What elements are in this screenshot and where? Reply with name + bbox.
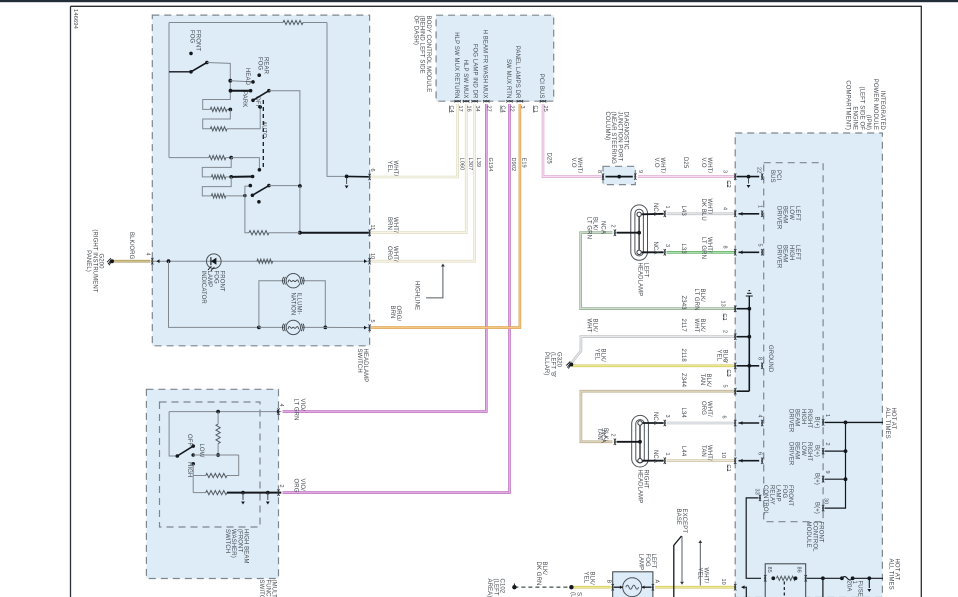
svg-text:30: 30 — [823, 498, 829, 504]
svg-text:LEFT: LEFT — [643, 263, 649, 278]
svg-text:RIGHT: RIGHT — [643, 470, 649, 489]
pin 4 headlamp switch — [151, 258, 153, 264]
svg-text:YEL: YEL — [696, 568, 702, 580]
except base arrow to wire — [681, 536, 683, 582]
svg-text:WHT/: WHT/ — [659, 158, 665, 174]
svg-text:AUTO: AUTO — [261, 121, 267, 138]
svg-text:22: 22 — [509, 106, 515, 112]
BCM pins 22 3 — [506, 100, 512, 102]
relay coil — [764, 575, 766, 581]
wire fog lamp pin A to IPM fog pin 10 — [655, 586, 735, 589]
svg-text:LT GRN: LT GRN — [693, 289, 699, 311]
front fog contact dot — [189, 52, 193, 56]
wire right vertical to pin 6 — [327, 23, 346, 177]
svg-text:(NEAR STEERING: (NEAR STEERING — [610, 112, 616, 165]
svg-text:B(+): B(+) — [814, 502, 820, 514]
arrow branch down at pin6 node — [346, 178, 348, 184]
node junction pin6 branch — [345, 175, 349, 179]
svg-text:22: 22 — [756, 167, 762, 173]
fog lamp relay box — [765, 564, 806, 597]
svg-text:ALL TIMES: ALL TIMES — [884, 408, 890, 439]
svg-text:9: 9 — [637, 170, 643, 173]
svg-text:RIGHT: RIGHT — [806, 409, 812, 428]
svg-text:LOW: LOW — [788, 206, 794, 220]
svg-text:H BEAM FR WASH MUX: H BEAM FR WASH MUX — [482, 30, 488, 99]
IPM pin 5 — [734, 388, 736, 394]
svg-text:HIGH: HIGH — [186, 462, 192, 477]
MFS switch blade — [176, 454, 180, 458]
svg-text:MODULE: MODULE — [805, 522, 811, 548]
svg-text:LEFT: LEFT — [794, 206, 800, 221]
wire WHT/LT GRN L33 left headlamp pin 3 to IPM pin 8 — [667, 251, 735, 254]
svg-text:WHT/: WHT/ — [703, 568, 709, 584]
svg-text:SW MUX RTN: SW MUX RTN — [505, 59, 511, 99]
arrow into MFS pin 4 — [277, 410, 280, 414]
wire WHT/ORG L39 BCM pin 34 to headlamp switch pin 10 — [371, 104, 475, 261]
svg-text:ENGINE: ENGINE — [851, 106, 857, 130]
wire BLK/YEL 2118 ground G320 to IPM pin 3 — [572, 364, 735, 367]
wire WHT/V.O D25 PCI bus port pin 9 to IPM pin 3 — [638, 175, 735, 178]
left headlamp pin circles — [637, 212, 641, 216]
svg-text:2118: 2118 — [680, 349, 686, 363]
FCM B+ pin 30 — [822, 505, 824, 511]
wire BLK/DK GRN dashed to connector C102 — [514, 586, 571, 588]
svg-text:LAMP: LAMP — [206, 271, 212, 288]
svg-text:INDICATOR: INDICATOR — [200, 271, 206, 305]
wire WHT/TAN L44 right headlamp pin 1 to IPM pin 10 — [667, 459, 735, 462]
IPM ground bus — [737, 308, 750, 310]
svg-text:4: 4 — [757, 415, 763, 418]
fog lamp bulb — [623, 578, 642, 597]
svg-text:TAN: TAN — [700, 445, 706, 457]
wire pin4 row with LED — [153, 260, 369, 262]
splice dot right — [569, 585, 573, 589]
svg-text:WHT/: WHT/ — [392, 246, 398, 262]
svg-text:1: 1 — [664, 206, 670, 209]
wire BLK/YEL splice to left fog lamp pin B — [571, 586, 610, 589]
svg-text:BLK/: BLK/ — [705, 374, 711, 388]
svg-text:WHT/: WHT/ — [576, 158, 582, 174]
svg-text:SWITCH: SWITCH — [224, 529, 230, 553]
svg-text:BLK/: BLK/ — [589, 572, 595, 586]
svg-text:L060: L060 — [458, 158, 464, 171]
fuse 1 — [842, 577, 853, 580]
svg-text:ILLUMI-: ILLUMI- — [296, 293, 302, 315]
svg-text:L34: L34 — [680, 408, 686, 419]
FCM pin 4 — [761, 420, 763, 426]
off contact lower — [257, 200, 261, 204]
wire park blade to right bus — [269, 91, 300, 186]
svg-text:COLUMN): COLUMN) — [604, 112, 610, 141]
svg-text:VIO/: VIO/ — [299, 399, 305, 412]
svg-text:2: 2 — [610, 434, 616, 437]
svg-text:DIAGNOSTIC: DIAGNOSTIC — [623, 112, 629, 151]
right headlamp pin 2 — [614, 439, 616, 445]
svg-text:BLK/: BLK/ — [600, 349, 606, 363]
right headlamp stadium — [632, 415, 649, 467]
svg-text:2: 2 — [722, 330, 728, 333]
resistor park ladder 1 — [210, 107, 227, 111]
wire to pin 5 — [325, 326, 368, 328]
svg-text:DRIVER: DRIVER — [775, 206, 781, 230]
IPM pin 6 — [734, 420, 736, 426]
svg-text:8: 8 — [757, 357, 763, 360]
wire BLK/WHT 2117 ground G320 to IPM pin 2 — [571, 337, 734, 363]
IPM pin 2 — [734, 334, 736, 340]
resistor dimmer 2 — [211, 175, 225, 179]
svg-text:A: A — [654, 580, 660, 584]
svg-text:LT GRN: LT GRN — [293, 399, 299, 421]
wire BLK/TAN Z344 right headlamp pin 2 to IPM pin 5 — [581, 391, 735, 442]
svg-text:BODY CONTROL MODULE: BODY CONTROL MODULE — [425, 16, 431, 93]
svg-text:1: 1 — [664, 453, 670, 456]
right headlamp pin circles — [638, 421, 642, 425]
svg-text:HIGH: HIGH — [788, 245, 794, 260]
svg-text:BLK/ORG: BLK/ORG — [128, 232, 134, 260]
svg-text:D25: D25 — [545, 153, 551, 165]
head contact — [228, 79, 232, 83]
svg-text:B(+): B(+) — [814, 417, 820, 429]
svg-text:10: 10 — [720, 452, 726, 458]
svg-text:DRIVER: DRIVER — [775, 245, 781, 269]
contact wire dimmer2 thick — [231, 176, 252, 178]
svg-text:LEFT: LEFT — [794, 245, 800, 260]
svg-text:LEFT: LEFT — [650, 554, 656, 569]
svg-text:DRIVER: DRIVER — [787, 442, 793, 466]
svg-text:BEAM: BEAM — [794, 442, 800, 459]
IPM wire pin10 to FCM pin 6 — [739, 460, 760, 462]
svg-text:DK GRN: DK GRN — [535, 562, 541, 586]
IPM PCI wire to FCM pin 22 — [737, 176, 760, 178]
svg-text:WHT/: WHT/ — [706, 237, 712, 253]
svg-text:NCA: NCA — [652, 412, 658, 425]
svg-text:LT GRN: LT GRN — [585, 217, 591, 239]
svg-text:(FRONT: (FRONT — [236, 529, 242, 552]
svg-text:4: 4 — [145, 253, 151, 256]
wire loop dimmer 2 — [202, 158, 231, 177]
top dark bar — [0, 0, 958, 2]
headlamp switch module box — [152, 15, 369, 346]
svg-text:6: 6 — [369, 169, 375, 172]
except base leader wire — [674, 536, 682, 597]
svg-text:ORG: ORG — [700, 401, 706, 415]
svg-text:RELAY: RELAY — [768, 485, 774, 505]
fog lamp pin A — [652, 584, 654, 590]
right headlamp internal wires — [643, 422, 664, 424]
svg-text:LOW: LOW — [800, 442, 806, 456]
wire left feed vertical — [168, 23, 170, 72]
MFS high contact — [191, 462, 195, 466]
wht/yel branch vertical with arrow — [699, 543, 701, 586]
svg-text:2117: 2117 — [680, 319, 686, 333]
wire relay to fuse — [807, 577, 842, 579]
FCM B+ pin 1 — [822, 419, 824, 425]
svg-text:33: 33 — [754, 489, 760, 495]
svg-text:LAMP: LAMP — [775, 485, 781, 502]
svg-text:NATION: NATION — [289, 293, 295, 316]
wire to off contact — [227, 107, 260, 129]
svg-text:6: 6 — [757, 452, 763, 455]
svg-text:V.O: V.O — [570, 158, 576, 168]
FCM pin 6 — [761, 458, 763, 464]
svg-text:EXCEPT: EXCEPT — [681, 509, 687, 534]
svg-text:C1: C1 — [532, 106, 538, 113]
svg-text:FRONT: FRONT — [219, 271, 225, 292]
svg-text:LAMP: LAMP — [638, 554, 644, 571]
svg-text:ALL TIMES: ALL TIMES — [887, 559, 893, 590]
svg-text:5: 5 — [722, 385, 728, 388]
right headlamp pin 1 — [664, 458, 666, 464]
svg-text:BASE: BASE — [675, 509, 681, 525]
svg-text:CONTROL: CONTROL — [811, 522, 817, 553]
multifunction switch box — [146, 389, 278, 578]
svg-text:G194: G194 — [487, 158, 493, 172]
svg-text:LT GRN: LT GRN — [700, 237, 706, 259]
svg-text:27: 27 — [486, 106, 492, 112]
svg-text:2: 2 — [278, 485, 284, 488]
svg-text:16: 16 — [465, 106, 471, 112]
svg-text:L44: L44 — [680, 446, 686, 457]
svg-text:WHT/: WHT/ — [706, 401, 712, 417]
svg-text:B(+): B(+) — [814, 445, 820, 457]
svg-text:(IPM): (IPM) — [865, 115, 871, 130]
svg-text:RIGHT: RIGHT — [806, 442, 812, 461]
svg-text:85: 85 — [766, 567, 772, 573]
FCM pin 5 — [761, 249, 763, 255]
IPM pin 10 — [734, 458, 736, 464]
svg-text:FRONT: FRONT — [818, 522, 824, 543]
svg-text:V.O: V.O — [700, 158, 706, 168]
contact auto upper — [258, 168, 262, 172]
FCM pin 22 — [761, 173, 763, 179]
right headlamp pin 3 — [664, 420, 666, 426]
svg-text:HIGH BEAM: HIGH BEAM — [243, 529, 249, 564]
FCM fog relay control pin 33 — [759, 495, 761, 501]
svg-text:WHT: WHT — [693, 319, 699, 333]
arrow into pin 10 — [364, 259, 367, 263]
svg-text:OF DASH): OF DASH) — [412, 16, 418, 45]
svg-text:L307: L307 — [467, 158, 473, 171]
high beam switch inner box — [160, 402, 261, 527]
rear fog contact dot — [257, 73, 261, 77]
IPM fog pin 10 — [734, 584, 736, 590]
svg-text:BRN: BRN — [389, 306, 395, 319]
port pin 8 — [602, 173, 604, 179]
wire BLK/LT GRN Z343 left headlamp pin 2 to IPM pin 13 — [581, 233, 735, 309]
svg-text:86: 86 — [796, 567, 802, 573]
front control module inner box — [764, 163, 823, 522]
IPM wire pin4 to FCM pin 1 — [739, 213, 760, 215]
svg-text:HEADLAMP: HEADLAMP — [636, 263, 642, 297]
bus vertical to pin 11 row — [299, 186, 301, 233]
illumination lamp loop — [169, 261, 259, 327]
svg-text:13: 13 — [720, 301, 726, 307]
svg-text:WHT/: WHT/ — [392, 217, 398, 233]
port pin 9 — [634, 173, 636, 179]
svg-text:C4: C4 — [500, 106, 506, 113]
MFS pin 2 — [277, 489, 279, 495]
wire WHT/GRN L307 BCM pin 16 to headlamp switch pin 11 — [371, 104, 466, 233]
svg-text:V.O: V.O — [653, 158, 659, 168]
svg-text:G200: G200 — [98, 253, 104, 269]
svg-text:NCA: NCA — [652, 450, 658, 463]
port internal wire — [606, 176, 633, 178]
svg-text:DK BLU: DK BLU — [700, 199, 706, 221]
wire ORG/GRN E19 BCM pin 3 to headlamp switch pin 5 — [371, 104, 520, 328]
svg-text:C4: C4 — [448, 106, 454, 113]
svg-text:10: 10 — [720, 579, 726, 585]
svg-text:WHT/: WHT/ — [706, 445, 712, 461]
svg-text:S119: S119 — [576, 592, 582, 597]
svg-text:PARK: PARK — [241, 91, 247, 107]
headlamp switch feed wire top — [169, 22, 283, 24]
svg-text:COMPARTMENT): COMPARTMENT) — [845, 80, 851, 130]
svg-text:5: 5 — [757, 244, 763, 247]
resistor dimmer 3 — [211, 194, 225, 198]
wire VIOLET/GRN G194 BCM pin 27 to multifunction switch pin 4 — [283, 104, 487, 412]
node dimmer2 — [229, 175, 233, 179]
BCM pins 17 16 34 27 — [455, 100, 461, 102]
IPM pin 8 — [734, 249, 736, 255]
B+ bus wires — [825, 421, 884, 423]
svg-text:(LEFT SIDE OF: (LEFT SIDE OF — [858, 86, 864, 130]
svg-text:PCI: PCI — [775, 170, 781, 181]
svg-text:(LEFT: (LEFT — [569, 592, 575, 597]
left headlamp pin 1 — [664, 211, 666, 217]
svg-text:BEAM: BEAM — [782, 206, 788, 223]
off contact dot — [258, 105, 262, 109]
svg-text:HIGH: HIGH — [800, 409, 806, 424]
svg-text:HLP SW MUX RETURN: HLP SW MUX RETURN — [453, 32, 459, 98]
svg-text:DRIVER: DRIVER — [787, 409, 793, 433]
svg-text:HOT AT: HOT AT — [894, 559, 900, 581]
FCM B+ pin 2 — [822, 448, 824, 454]
arrow fog wire into IPM — [742, 585, 745, 589]
svg-text:NCA: NCA — [652, 203, 658, 216]
ground G200 — [110, 259, 114, 263]
FCM B+ pin 9 — [822, 476, 824, 482]
svg-text:9: 9 — [824, 471, 830, 474]
contact stub dimmer3 — [245, 186, 250, 196]
svg-text:HEAD: HEAD — [244, 68, 250, 86]
wire WHT/DK BLU L43 left headlamp pin 1 to IPM pin 4 — [667, 213, 735, 216]
svg-text:BLK/: BLK/ — [699, 289, 705, 303]
svg-text:CONTROL: CONTROL — [762, 485, 768, 516]
svg-text:3: 3 — [722, 359, 728, 362]
pin 11 headlamp switch — [368, 230, 370, 236]
svg-text:(MULTI-: (MULTI- — [271, 580, 277, 597]
resistor park ladder 2 — [210, 127, 227, 131]
svg-text:BLK/: BLK/ — [592, 319, 598, 333]
arrow into pin 4 — [157, 259, 160, 263]
svg-text:SWITCH): SWITCH) — [258, 580, 264, 597]
svg-text:AREA): AREA) — [486, 579, 492, 597]
svg-text:(BEHIND LEFT SIDE: (BEHIND LEFT SIDE — [419, 16, 425, 74]
IPM pin 4 — [734, 211, 736, 217]
resistor dimmer 1 — [209, 156, 226, 160]
svg-text:10: 10 — [369, 253, 375, 259]
svg-text:B(+): B(+) — [814, 473, 820, 485]
svg-text:E19: E19 — [521, 158, 527, 168]
svg-text:WASHER): WASHER) — [230, 529, 236, 558]
svg-text:4: 4 — [278, 404, 284, 407]
IPM pin 13 — [734, 306, 736, 312]
MFS resistor 3 — [193, 492, 206, 494]
svg-text:FOG: FOG — [781, 485, 787, 499]
wire FCM pin33 to relay coil — [746, 498, 761, 578]
svg-text:INTEGRATED: INTEGRATED — [879, 91, 885, 131]
svg-text:YEL: YEL — [593, 349, 599, 361]
svg-text:NCA: NCA — [600, 221, 606, 234]
wire WHT/V.O D25 PCI bus BCM pin 25 to diagnostic junction port pin 8 — [543, 104, 602, 177]
MFS low contact — [191, 453, 195, 457]
node dimmer1 — [229, 156, 233, 160]
svg-text:C102: C102 — [499, 579, 505, 594]
park switch blade — [251, 99, 255, 103]
IPM pin 3 PCI — [734, 173, 736, 179]
park contact wire — [229, 89, 233, 93]
svg-text:BLK/: BLK/ — [602, 428, 608, 442]
svg-text:146694: 146694 — [72, 9, 78, 30]
svg-text:HLP SW MUX: HLP SW MUX — [462, 60, 468, 99]
svg-text:HEADLAMP: HEADLAMP — [362, 349, 368, 383]
svg-text:8: 8 — [596, 170, 602, 173]
svg-text:1: 1 — [824, 414, 830, 417]
left headlamp pin 3 — [664, 249, 666, 255]
wire thick to pin 11 — [300, 232, 369, 234]
svg-text:BEAM: BEAM — [794, 409, 800, 426]
wire lower ladder feed — [169, 157, 209, 159]
svg-text:FOG: FOG — [256, 57, 262, 71]
svg-text:3: 3 — [722, 170, 728, 173]
svg-text:BLK/: BLK/ — [541, 562, 547, 576]
svg-text:17: 17 — [457, 106, 463, 112]
pin 5 headlamp switch — [368, 324, 370, 330]
svg-text:FOG LAMP IND DR: FOG LAMP IND DR — [472, 44, 478, 99]
svg-text:6: 6 — [721, 416, 727, 419]
left headlamp pin 2 — [614, 230, 616, 236]
svg-text:8: 8 — [722, 246, 728, 249]
svg-text:5: 5 — [369, 320, 375, 323]
MFS left vertical — [169, 412, 177, 456]
svg-text:D25: D25 — [682, 157, 688, 169]
svg-text:WHT/: WHT/ — [706, 199, 712, 215]
svg-text:YEL: YEL — [386, 161, 392, 173]
svg-text:FUNCTION: FUNCTION — [264, 580, 270, 597]
MFS low node wire — [193, 454, 239, 456]
diagnostic junction port box — [603, 166, 635, 184]
svg-text:(LEFT HEADLAMP: (LEFT HEADLAMP — [492, 579, 498, 597]
illumination bulb lower — [259, 326, 285, 328]
switch blade front fog — [169, 71, 191, 73]
svg-text:WHT/: WHT/ — [706, 158, 712, 174]
svg-text:PANEL): PANEL) — [85, 250, 91, 272]
svg-text:WHT: WHT — [585, 319, 591, 333]
svg-text:GROUND: GROUND — [767, 345, 773, 373]
svg-text:ORG: ORG — [386, 246, 392, 260]
svg-text:NCA: NCA — [652, 242, 658, 255]
svg-text:3: 3 — [664, 415, 670, 418]
svg-text:YEL: YEL — [715, 350, 721, 362]
IPM wire pin8 to FCM pin 5 — [739, 251, 760, 253]
wire fuse to hot — [853, 577, 883, 579]
svg-text:BEAM: BEAM — [782, 245, 788, 262]
resistor headlamp switch top — [283, 20, 303, 24]
svg-text:G320: G320 — [556, 352, 562, 368]
svg-text:Z343: Z343 — [680, 296, 686, 311]
FCM ground pin 8 — [761, 363, 763, 369]
svg-text:2: 2 — [610, 225, 616, 228]
